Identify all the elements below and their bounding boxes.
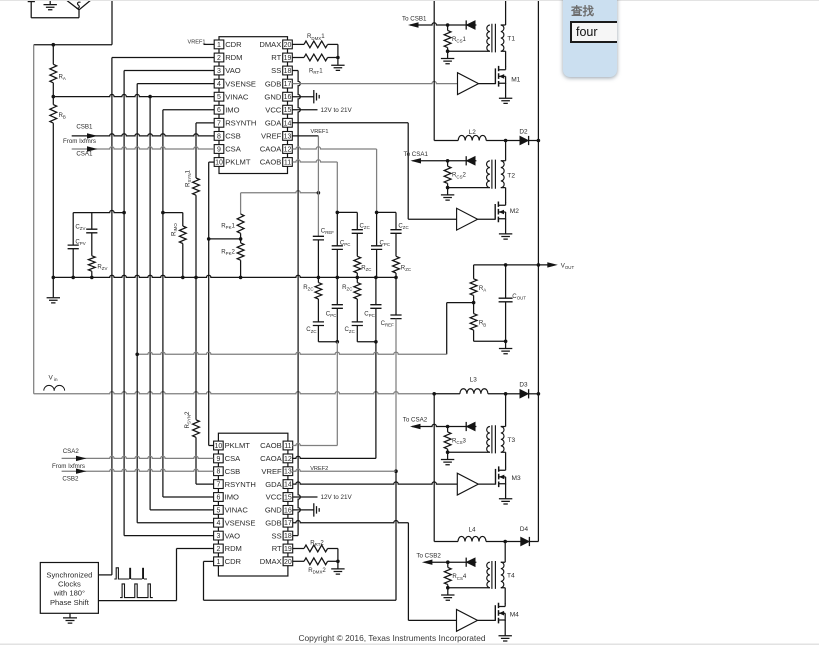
wire VAO comp top (73, 210, 124, 212)
node CT1 bottom (446, 49, 450, 53)
wire VREF2 vertical (gray) (395, 319, 397, 472)
wire CAOA1 comp top (377, 211, 396, 213)
transformer T2 (487, 161, 490, 188)
wire VREF1 pin to vertical (292, 135, 318, 137)
wire clock output 1 (to RDM1) (98, 574, 112, 576)
node CT1 top (446, 23, 450, 27)
svg-text:CSA2: CSA2 (63, 448, 80, 455)
svg-text:T4: T4 (507, 573, 515, 580)
wire CSB2 input with arrow (gray) (62, 469, 214, 471)
wire CAOA1 (gray) (292, 147, 376, 149)
diode (CT1 clamp) (466, 21, 475, 30)
svg-text:D2: D2 (519, 128, 528, 135)
svg-text:Clocks: Clocks (58, 580, 81, 589)
clock waveform 1 (narrow pulses) (114, 568, 147, 579)
wire PKLMT1-PKLMT2 vertical (209, 161, 215, 163)
capacitor CREF1 (313, 236, 324, 240)
op-amp driver 2 (457, 208, 478, 230)
node CAOA2 comp bottom (374, 340, 378, 344)
resistor RB (output divider) (473, 303, 475, 314)
svg-text:in: in (54, 377, 58, 383)
node output divider tap (472, 301, 476, 305)
capacitor CZC (CAOB2) (313, 322, 324, 326)
wire L3 feed (434, 393, 460, 395)
arrow To CSA2 (410, 424, 421, 429)
svg-text:20: 20 (284, 42, 292, 49)
capacitor CZV (91, 213, 93, 229)
junction on ground rail x=337.3 (336, 276, 340, 280)
junction on ground rail x=196.0 (194, 276, 198, 280)
ground (GND pin U1, rotated) (292, 96, 314, 98)
svg-text:4: 4 (217, 81, 221, 88)
wire GDA2 to driver 3 (293, 482, 458, 484)
svg-text:CSB: CSB (225, 467, 241, 476)
svg-text:From Ixfmrs: From Ixfmrs (52, 463, 85, 470)
diode (CT2 clamp) (466, 156, 475, 165)
inductor L3 (460, 389, 488, 394)
node on VREF1 net (317, 191, 321, 195)
resistor RCS1 (447, 25, 449, 30)
resistor RZC (CAOA1) (393, 256, 400, 273)
synchronized clocks box (40, 563, 98, 614)
wire CAOB2 (gray) to pin 11 (336, 342, 338, 446)
svg-text:12V to 21V: 12V to 21V (321, 494, 353, 501)
wire T3 secondary top (505, 394, 507, 427)
wire Vin bus (gray, left vertical) (33, 45, 35, 394)
svg-text:Phase Shift: Phase Shift (50, 598, 90, 607)
wire CT1 bottom (448, 50, 490, 52)
wire IMO1-IMO2 bus (163, 109, 214, 111)
node Cout bottom (504, 340, 508, 344)
wire GDB2 to driver 4 (293, 521, 409, 523)
svg-text:GDB: GDB (265, 518, 281, 527)
svg-text:M1: M1 (511, 76, 520, 83)
svg-text:CDR: CDR (225, 40, 242, 49)
page edge bottom (0, 643, 819, 645)
svg-text:DMAX: DMAX (259, 40, 281, 49)
ground (M3 source) (505, 484, 507, 499)
junction on ground rail x=375.9 (374, 276, 378, 280)
svg-text:VREF1: VREF1 (188, 39, 206, 45)
transformer T3 (487, 427, 490, 453)
svg-text:GDA: GDA (265, 119, 282, 128)
op-amp driver 3 (457, 473, 478, 495)
wire CSA2 input with arrow (gray) (62, 456, 214, 458)
svg-text:12V to 21V: 12V to 21V (321, 107, 353, 114)
node Vout-bus (537, 263, 541, 267)
junction on ground rail x=240.6 (239, 276, 243, 280)
svg-text:CSA: CSA (225, 145, 242, 154)
op-amp driver 1 (458, 73, 479, 95)
svg-text:3: 3 (216, 533, 220, 540)
svg-text:12: 12 (284, 456, 292, 463)
resistor RZC (CAOA2) (356, 277, 358, 282)
resistor RB (input divider) (52, 97, 54, 105)
svg-text:GDA: GDA (265, 480, 282, 489)
svg-text:VSENSE: VSENSE (225, 79, 256, 88)
junction on ground rail x=91.8 (90, 276, 94, 280)
svg-text:9: 9 (217, 147, 221, 154)
wire T2 secondary top (505, 141, 507, 161)
wire To CSB2 line (424, 561, 476, 563)
wire T1 secondary top (505, 0, 507, 25)
svg-text:GDB: GDB (265, 79, 281, 88)
svg-text:5: 5 (217, 94, 221, 101)
svg-text:GND: GND (265, 506, 282, 515)
resistor RDMX1 (292, 43, 304, 45)
svg-text:19: 19 (284, 55, 292, 62)
capacitor CPC (CAOB1) (336, 212, 338, 245)
svg-text:VAO: VAO (225, 66, 241, 75)
resistor RSYN1 (193, 178, 200, 195)
wire CT3 bottom (448, 451, 490, 453)
svg-text:RT: RT (272, 544, 282, 553)
capacitor CPC (CAOB2) (336, 277, 338, 304)
wire CT4 bottom (448, 587, 490, 589)
svg-text:2: 2 (217, 55, 221, 62)
node CT4 bottom (446, 586, 450, 590)
label 12V to 21V (VCC U1) (292, 109, 317, 111)
svg-text:19: 19 (284, 546, 292, 553)
page edge top (0, 0, 819, 2)
svg-text:VREF2: VREF2 (310, 466, 328, 472)
svg-text:14: 14 (284, 120, 292, 127)
svg-text:To CSB2: To CSB2 (416, 552, 441, 559)
svg-text:T1: T1 (507, 36, 515, 43)
svg-text:CSB2: CSB2 (62, 476, 79, 483)
wire phase 4 feed (433, 394, 435, 542)
svg-text:IMO: IMO (225, 493, 239, 502)
svg-text:VSENSE: VSENSE (225, 518, 256, 527)
capacitor CPV (72, 213, 74, 245)
svg-text:L3: L3 (470, 377, 478, 384)
wire To CSA1 line (413, 160, 477, 162)
svg-text:CAOB: CAOB (260, 441, 282, 450)
svg-text:RDM: RDM (225, 544, 242, 553)
svg-text:To CSA1: To CSA1 (404, 151, 429, 158)
svg-text:VINAC: VINAC (225, 92, 249, 101)
ground (GND pin U2, rotated) (293, 509, 314, 511)
ground (RCS4) (447, 588, 449, 595)
svg-text:8: 8 (216, 469, 220, 476)
svg-text:8: 8 (217, 133, 221, 140)
svg-text:1: 1 (217, 42, 221, 49)
wire To CSB1 line (410, 23, 476, 25)
node RT/DMAX junction (336, 56, 340, 60)
resistor RRT1 (292, 57, 304, 59)
svg-text:D4: D4 (520, 526, 529, 533)
wire CT2 bottom (448, 187, 490, 189)
wire VREF2 pin 13 (gray) (292, 469, 396, 471)
svg-text:15: 15 (284, 495, 292, 502)
svg-text:CSB: CSB (225, 132, 241, 141)
wire GDB1 (gray) to driver 1 (292, 81, 457, 83)
svg-text:VREF1: VREF1 (311, 129, 329, 135)
transistor M4 (494, 605, 496, 621)
svg-text:V: V (49, 375, 54, 382)
svg-text:To CSB1: To CSB1 (402, 15, 427, 22)
svg-text:Synchronized: Synchronized (46, 570, 92, 579)
svg-text:VREF: VREF (261, 132, 282, 141)
resistor RA (output divider) (473, 265, 475, 279)
svg-text:RSYNTH: RSYNTH (225, 119, 256, 128)
op-amp driver 4 (457, 610, 478, 632)
inductor L2 (458, 135, 486, 140)
svg-text:RT: RT (271, 53, 281, 62)
wire L4 feed (434, 541, 458, 543)
ground (RT1 network) (337, 58, 339, 65)
node RPK divider mid (239, 237, 243, 241)
svg-text:T2: T2 (507, 173, 515, 180)
svg-text:11: 11 (284, 443, 291, 450)
svg-text:SS: SS (271, 66, 281, 75)
capacitor COUT (505, 265, 507, 298)
wire RDM1 from clock (vertical bus) (112, 57, 214, 59)
junction on ground rail x=73.2 (71, 276, 75, 280)
ground (M2 source) (505, 219, 507, 234)
wire L2 to T2 node (486, 140, 505, 142)
svg-text:CAOA: CAOA (260, 454, 282, 463)
ground (RCS1) (447, 51, 449, 58)
transistor M1 (494, 68, 496, 84)
capacitor CREF2 (395, 277, 397, 314)
svg-text:PKLMT: PKLMT (225, 441, 251, 450)
resistor RZC (CAOB1) (354, 256, 361, 273)
ground (input bulk cap) (49, 0, 51, 4)
svg-text:1: 1 (216, 559, 220, 566)
node Vin to phase 3/4 (432, 392, 436, 396)
junction on ground rail x=396.0 (394, 276, 398, 280)
svg-text:6: 6 (217, 107, 221, 114)
svg-text:M4: M4 (510, 611, 519, 618)
wire GDA1 to driver 2 (292, 122, 408, 124)
wire VREF2 to CDR2 (395, 471, 397, 600)
wire PKLMT tap to divider (209, 238, 241, 240)
svg-text:10: 10 (215, 443, 223, 450)
svg-text:16: 16 (284, 94, 292, 101)
svg-text:To CSA2: To CSA2 (403, 417, 428, 424)
resistor RRT2 (293, 548, 304, 550)
resistor RPK1 (237, 214, 244, 233)
wire T3 secondary to M3 drain (505, 452, 507, 467)
arrow To CSB1 (408, 22, 419, 27)
capacitor CPC (CAOA1) (376, 212, 378, 245)
transistor M3 (495, 469, 497, 485)
junction on ground rail x=53.3 (52, 276, 56, 280)
wire VSENSE1-VSENSE2 bus (137, 83, 214, 85)
ground (RCS2) (447, 188, 449, 195)
wire clock output 2 (to RDM2) (98, 600, 176, 602)
resistor RCS2 (447, 161, 449, 166)
wire VINAC1-VINAC2 bus (53, 94, 214, 96)
resistor RDMX2 (293, 560, 304, 562)
svg-text:D3: D3 (519, 382, 528, 389)
wire VAO1-VAO2 bus (124, 70, 214, 72)
arrow To CSA1 (411, 158, 422, 163)
capacitor CIN (cropped, top-left) (28, 0, 35, 2)
node VREF2 junction (394, 469, 398, 473)
svg-text:VREF: VREF (261, 467, 282, 476)
ground (output) (505, 341, 507, 348)
svg-text:4: 4 (216, 520, 220, 527)
wire output diode bus (right vertical) (537, 0, 539, 542)
svg-text:SS: SS (272, 531, 282, 540)
ground (RT2 network) (337, 561, 339, 568)
node RT2/DMAX2 junction (336, 560, 340, 564)
wire L4 to T4 node (486, 541, 505, 543)
wire CAOB1 comp top (337, 211, 357, 213)
svg-text:L2: L2 (469, 129, 477, 136)
wire T4 secondary to M4 drain (504, 588, 506, 604)
svg-text:7: 7 (216, 482, 220, 489)
node VINAC divider tap (52, 95, 56, 99)
node Vout-Cout (504, 263, 508, 267)
svg-text:7: 7 (217, 120, 221, 127)
svg-text:16: 16 (284, 507, 292, 514)
wire L2 feed (434, 140, 458, 142)
node CT3 bottom (446, 450, 450, 454)
wire T4 secondary top (504, 542, 506, 563)
svg-text:18: 18 (284, 68, 292, 75)
diode (CT4 clamp) (466, 558, 475, 567)
svg-text:15: 15 (284, 107, 292, 114)
clock waveform 2 (narrow pulses) (120, 584, 153, 598)
svg-text:3: 3 (217, 68, 221, 75)
wire T2 secondary to M2 drain (505, 188, 507, 203)
svg-text:M3: M3 (512, 475, 521, 482)
junction on ground rail x=318.4 (317, 276, 321, 280)
svg-text:DMAX: DMAX (260, 557, 282, 566)
svg-text:5: 5 (216, 507, 220, 514)
arrow To CSB2 (422, 560, 433, 565)
wire phase 1/2 input feed (433, 0, 435, 141)
diode (CT3 clamp) (466, 422, 475, 431)
junction on ground rail x=182.8 (181, 276, 185, 280)
resistor RZV (88, 256, 95, 271)
transistor M2 (494, 204, 496, 220)
svg-text:VAO: VAO (225, 531, 241, 540)
svg-text:VCC: VCC (266, 493, 283, 502)
wire bridge positive rail to node (111, 0, 113, 45)
svg-text:17: 17 (284, 520, 292, 527)
label 12V to 21V (VCC U2) (293, 496, 318, 498)
inductor L4 (458, 536, 486, 541)
node VAO net to comp (122, 211, 126, 215)
wire CSB1 input with arrow (72, 134, 215, 136)
svg-text:From Ixfmrs: From Ixfmrs (63, 138, 96, 145)
find toolbar panel (563, 0, 617, 77)
arrow VOUT (547, 262, 558, 267)
resistor RIMO (182, 213, 184, 226)
wire ground rail (53, 275, 396, 277)
svg-text:2: 2 (216, 546, 220, 553)
resistor RZC (CAOB2) (317, 277, 319, 282)
svg-text:IMO: IMO (225, 106, 239, 115)
wire CSA1 input with arrow (gray) (72, 147, 215, 149)
node CAOB2 comp bottom (336, 340, 340, 344)
transformer T1 (487, 25, 490, 51)
node D3 to bus (537, 392, 541, 396)
capacitor CPC (CAOA2) (375, 277, 377, 304)
capacitor CZC (CAOA2) (352, 322, 363, 326)
wire CAOA2 to pin 12 (375, 342, 377, 459)
svg-text:18: 18 (284, 533, 292, 540)
node D2 to bus (537, 139, 541, 143)
diode D3 (506, 393, 520, 395)
svg-text:14: 14 (284, 482, 292, 489)
wire To CSA2 line (412, 424, 476, 426)
svg-text:13: 13 (284, 133, 292, 140)
resistor RA (input divider) (52, 45, 54, 65)
ground (M4 source) (504, 620, 506, 636)
op-amp U1 (UCC28070 controller #1) (219, 37, 288, 174)
wire VOUT row (474, 264, 548, 266)
svg-text:CSB1: CSB1 (76, 123, 93, 130)
svg-text:13: 13 (284, 469, 292, 476)
svg-text:T3: T3 (508, 437, 516, 444)
transformer T4 (487, 562, 490, 588)
svg-text:M2: M2 (510, 208, 519, 215)
wire bridge output bottom (31, 10, 79, 18)
node CT2 bottom (446, 186, 450, 190)
node CT2 top (446, 159, 450, 163)
resistor RSYN2 (195, 277, 197, 419)
svg-text:CSA: CSA (225, 454, 242, 463)
ground (clock box) (69, 613, 71, 617)
ground (M1 source) (505, 83, 507, 98)
svg-text:Copyright © 2016, Texas Instru: Copyright © 2016, Texas Instruments Inco… (298, 633, 485, 643)
op-amp U2 (UCC28070 controller #2) (218, 433, 288, 576)
junction on ground rail x=357.3 (356, 276, 360, 280)
svg-text:CSA1: CSA1 (76, 150, 93, 157)
svg-text:9: 9 (216, 456, 220, 463)
svg-text:10: 10 (215, 160, 223, 167)
capacitor CZC (CAOA1) (395, 212, 397, 229)
svg-text:PKLMT: PKLMT (225, 158, 251, 167)
wire Vin bus (gray, horizontal to phase inductors) (34, 392, 435, 394)
resistor RPK2 (240, 239, 242, 243)
svg-text:6: 6 (216, 495, 220, 502)
svg-text:20: 20 (284, 559, 292, 566)
svg-text:RSYNTH: RSYNTH (225, 480, 256, 489)
wire VREF1 to RPK1 (gray) (241, 191, 319, 193)
ground (RCS3) (447, 452, 449, 459)
svg-text:CDR: CDR (225, 557, 242, 566)
ground (main rail) (52, 277, 54, 297)
svg-text:L4: L4 (468, 526, 476, 533)
resistor RCS4 (447, 562, 449, 567)
bridge rectifier BR1 (cropped diamond with AC tilde) (66, 0, 91, 10)
svg-text:11: 11 (284, 160, 291, 167)
wire L3 to T3 node (488, 393, 506, 395)
wire RSYNTH1 from pin 7 (196, 122, 214, 124)
wire RSYNTH2 to pin 7 (195, 437, 197, 484)
node bridge DC output (52, 43, 56, 47)
svg-text:RDM: RDM (225, 53, 242, 62)
node CT3 top (446, 425, 450, 429)
svg-text:VCC: VCC (265, 106, 282, 115)
node PKLMT tap (207, 237, 211, 241)
svg-text:VINAC: VINAC (225, 506, 249, 515)
svg-text:GND: GND (264, 92, 281, 101)
svg-text:with 180°: with 180° (53, 589, 85, 598)
resistor RCS3 (447, 427, 449, 432)
diode D4 (505, 541, 520, 543)
svg-text:CAOB: CAOB (260, 158, 282, 167)
wire T1 secondary to M1 drain (505, 51, 507, 67)
wire feedback tap to VSENSE bus (gray) (447, 302, 474, 304)
node CT4 top (446, 560, 450, 564)
